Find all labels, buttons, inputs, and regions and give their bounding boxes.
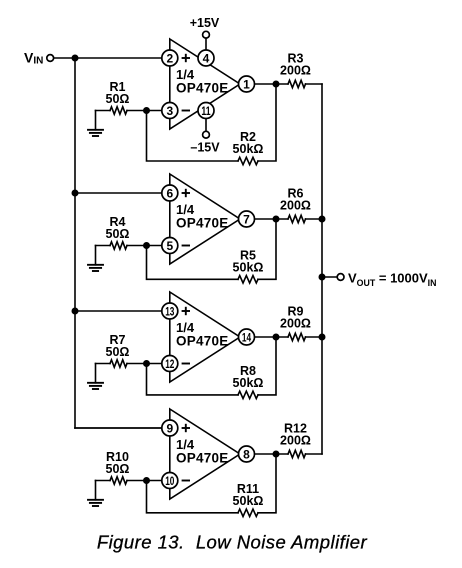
plus sign stage 1 <box>182 54 190 62</box>
wire output pin 8 to resistor R12 <box>255 453 289 455</box>
node -15V terminal <box>203 131 210 138</box>
node junction bus VOUT tap <box>319 274 326 281</box>
svg-text:–15V: –15V <box>190 141 220 155</box>
svg-text:50kΩ: 50kΩ <box>233 376 264 390</box>
node junction VIN / rail <box>72 55 79 62</box>
node +15V terminal <box>203 31 210 38</box>
svg-text:6: 6 <box>166 186 173 200</box>
wire feedback loop stage 4 <box>258 454 276 513</box>
svg-text:50kΩ: 50kΩ <box>233 260 264 274</box>
svg-text:Figure 13. Low Noise Amplifie: Figure 13. Low Noise Amplifier <box>97 532 368 553</box>
minus sign stage 1 <box>182 110 190 112</box>
svg-text:OP470E: OP470E <box>176 334 229 349</box>
resistor R4 50ohm <box>110 242 127 249</box>
wire resistor R6 to output bus <box>306 218 323 220</box>
svg-text:200Ω: 200Ω <box>280 317 311 331</box>
wire left rail to pin 9 (stage 4 corner) <box>75 427 162 429</box>
svg-text:2: 2 <box>166 51 173 65</box>
minus sign stage 2 <box>182 245 190 247</box>
wire output pin 7 to resistor R6 <box>255 218 289 220</box>
resistor R3 200ohm <box>288 80 306 87</box>
wire feedback to inverting node stage 4 <box>147 481 239 513</box>
resistor R6 200ohm <box>288 215 306 222</box>
resistor R5 50kohm <box>238 276 258 283</box>
svg-text:50Ω: 50Ω <box>106 227 130 241</box>
wire stage 4 non-inverting input from rail <box>75 427 162 429</box>
svg-text:14: 14 <box>242 330 251 344</box>
plus sign stage 3 <box>182 307 190 315</box>
svg-text:50kΩ: 50kΩ <box>233 142 264 156</box>
pin 9 non-inverting input stage 4 <box>162 420 178 436</box>
op-amp U1d stage 4 triangle <box>170 409 240 499</box>
wire feedback to inverting node stage 3 <box>147 364 239 395</box>
node VOUT terminal <box>337 274 344 281</box>
wire resistor R4 to pin 5 <box>127 245 162 247</box>
wire output pin 1 to resistor R3 <box>255 83 289 85</box>
svg-text:OP470E: OP470E <box>176 81 229 96</box>
wire feedback loop stage 1 <box>258 84 276 161</box>
pin 1 output stage 1 <box>239 76 255 92</box>
wire output pin 14 to resistor R9 <box>255 336 289 338</box>
node junction inverting input pin 5 <box>143 242 150 249</box>
wire resistor R9 to output bus <box>306 336 323 338</box>
wire feedback loop stage 3 <box>258 337 276 395</box>
ground stage 1 <box>95 111 97 130</box>
node junction output pin 14 <box>273 334 280 341</box>
svg-text:50Ω: 50Ω <box>106 92 130 106</box>
pin 5 inverting input stage 2 <box>162 238 178 254</box>
resistor R7 50ohm <box>110 360 127 367</box>
wire ground to resistor R7 <box>96 363 111 365</box>
svg-text:OP470E: OP470E <box>176 216 229 231</box>
minus sign stage 3 <box>182 363 190 365</box>
pin 10 inverting input stage 4 <box>162 473 178 489</box>
svg-text:+15V: +15V <box>190 16 220 30</box>
wire resistor R3 to output bus <box>306 83 323 85</box>
ground stage 4 <box>95 481 97 500</box>
node junction rail stage 3 tap <box>72 308 79 315</box>
wire left rail vertical <box>74 58 76 428</box>
svg-text:10: 10 <box>165 474 174 488</box>
node junction inverting input pin 12 <box>143 360 150 367</box>
op-amp U1b stage 2 triangle <box>170 174 240 264</box>
ground stage 3 <box>95 364 97 383</box>
resistor R8 50kohm <box>238 391 258 398</box>
wire feedback loop stage 2 <box>258 219 276 279</box>
pin 13 non-inverting input stage 3 <box>162 303 178 319</box>
node junction bus R9 <box>319 334 326 341</box>
svg-text:1: 1 <box>243 77 250 91</box>
svg-text:200Ω: 200Ω <box>280 199 311 213</box>
svg-text:OP470E: OP470E <box>176 451 229 466</box>
node VIN input terminal <box>47 55 54 62</box>
resistor R9 200ohm <box>288 333 306 340</box>
resistor R10 50ohm <box>110 477 127 484</box>
svg-text:7: 7 <box>243 212 250 226</box>
svg-text:50Ω: 50Ω <box>106 345 130 359</box>
svg-text:4: 4 <box>203 51 210 65</box>
pin 3 inverting input stage 1 <box>162 103 178 119</box>
svg-text:12: 12 <box>165 357 174 371</box>
pin 8 output stage 4 <box>239 446 255 462</box>
wire ground to resistor R4 <box>96 245 111 247</box>
svg-text:8: 8 <box>243 447 250 461</box>
svg-text:50kΩ: 50kΩ <box>233 494 264 508</box>
pin 4 V+ supply <box>198 50 214 66</box>
wire stage 3 non-inverting input from rail <box>75 310 162 312</box>
pin 6 non-inverting input stage 2 <box>162 185 178 201</box>
wire pin 4 to +15V terminal <box>205 38 207 50</box>
svg-text:11: 11 <box>201 104 210 118</box>
svg-text:5: 5 <box>166 239 173 253</box>
pin 2 non-inverting input stage 1 <box>162 50 178 66</box>
plus sign stage 4 <box>182 424 190 432</box>
svg-text:13: 13 <box>165 304 174 318</box>
pin 7 output stage 2 <box>239 211 255 227</box>
wire feedback to inverting node stage 2 <box>147 246 239 280</box>
wire ground to resistor R1 <box>96 110 111 112</box>
svg-text:9: 9 <box>166 421 173 435</box>
wire stage 2 non-inverting input from rail <box>75 192 162 194</box>
wire feedback to inverting node stage 1 <box>147 111 239 162</box>
svg-text:200Ω: 200Ω <box>280 434 311 448</box>
resistor R12 200ohm <box>288 450 306 457</box>
pin 12 inverting input stage 3 <box>162 356 178 372</box>
resistor R1 50ohm <box>110 107 127 114</box>
svg-text:3: 3 <box>166 104 173 118</box>
resistor R2 50kohm <box>238 157 258 164</box>
node junction output pin 8 <box>273 451 280 458</box>
resistor R11 50kohm <box>238 509 258 516</box>
wire resistor R1 to pin 3 <box>127 110 162 112</box>
node junction bus R6 <box>319 216 326 223</box>
node junction output pin 1 <box>273 81 280 88</box>
svg-text:200Ω: 200Ω <box>280 64 311 78</box>
minus sign stage 4 <box>182 480 190 482</box>
wire ground to resistor R10 <box>96 480 111 482</box>
wire resistor R7 to pin 12 <box>127 363 162 365</box>
node junction output pin 7 <box>273 216 280 223</box>
pin 14 output stage 3 <box>239 329 255 345</box>
op-amp U1c stage 3 triangle <box>170 292 240 382</box>
node junction rail stage 2 tap <box>72 190 79 197</box>
node junction inverting input pin 3 <box>143 107 150 114</box>
wire pin 11 to -15V terminal <box>205 119 207 132</box>
op-amp U1a stage 1 triangle <box>170 39 240 129</box>
wire VOUT tap <box>322 276 337 278</box>
wire VIN to left rail and pin 2 <box>54 57 162 59</box>
node junction inverting input pin 10 <box>143 477 150 484</box>
pin 11 V- supply <box>198 103 214 119</box>
wire resistor R12 to output bus <box>306 453 323 455</box>
wire resistor R10 to pin 10 <box>127 480 162 482</box>
svg-text:50Ω: 50Ω <box>106 462 130 476</box>
ground stage 2 <box>95 246 97 265</box>
wire output bus vertical <box>321 84 323 454</box>
plus sign stage 2 <box>182 189 190 197</box>
